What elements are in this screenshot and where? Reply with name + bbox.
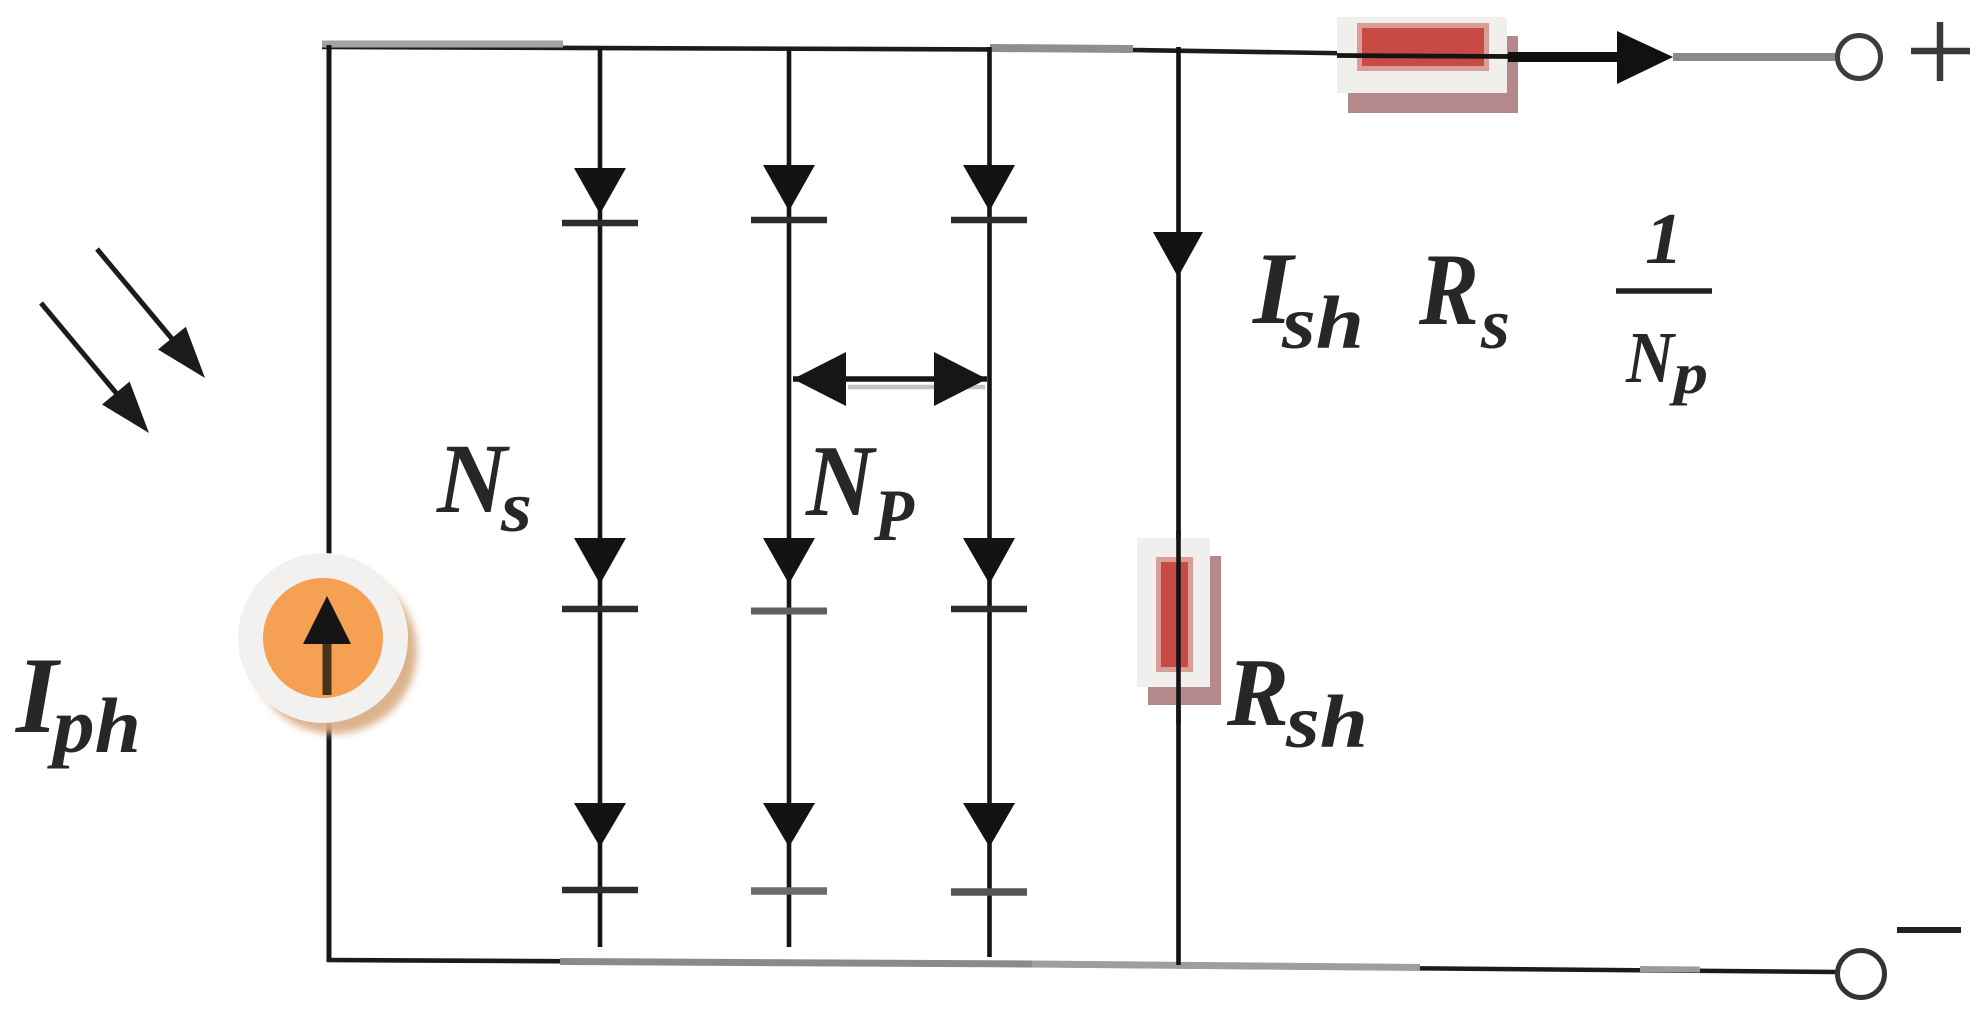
wire left branch bbox=[327, 45, 332, 962]
output current arrow bbox=[1337, 31, 1837, 84]
diode D5 string2 bbox=[751, 538, 827, 611]
label R_s bbox=[1418, 233, 1510, 364]
svg-text:N: N bbox=[805, 425, 877, 538]
svg-text:ph: ph bbox=[47, 682, 141, 769]
diode D2 string1 bbox=[562, 538, 638, 609]
diode D4 string2 bbox=[751, 165, 827, 220]
diode D3 string1 bbox=[562, 803, 638, 890]
diode D9 string3 bbox=[951, 803, 1027, 892]
label I_sh bbox=[1252, 232, 1364, 365]
svg-text:R: R bbox=[1418, 233, 1479, 347]
svg-text:sh: sh bbox=[1281, 282, 1364, 365]
diode string 1 wire bbox=[598, 47, 603, 947]
minus sign bbox=[1897, 927, 1961, 933]
wire bottom bus bbox=[327, 960, 1836, 972]
label N_s bbox=[436, 423, 532, 547]
wire shunt overlay through R_sh bbox=[1176, 530, 1181, 725]
diode D7 string3 bbox=[951, 165, 1027, 220]
sunlight arrow 2 bbox=[41, 303, 149, 433]
svg-text:1: 1 bbox=[1645, 198, 1683, 279]
diode D6 string2 bbox=[751, 803, 827, 891]
wire top bus bbox=[322, 44, 1520, 56]
svg-text:p: p bbox=[1668, 341, 1708, 406]
diode D8 string3 bbox=[951, 538, 1027, 609]
svg-text:s: s bbox=[1480, 284, 1510, 364]
current source I_ph (photocurrent source) bbox=[238, 553, 417, 734]
terminal negative bbox=[1838, 951, 1885, 998]
resistor R_sh bbox=[1137, 538, 1221, 705]
wire shunt branch bbox=[1176, 47, 1181, 965]
diode string 3 wire bbox=[987, 47, 992, 957]
diode string 2 wire bbox=[787, 47, 792, 947]
shunt current arrowhead bbox=[1153, 232, 1203, 277]
svg-text:s: s bbox=[500, 467, 532, 547]
svg-text:sh: sh bbox=[1285, 681, 1368, 764]
label N_P bbox=[805, 425, 915, 557]
dimension arrow N_P span bbox=[793, 352, 987, 406]
sunlight arrow 1 bbox=[97, 249, 205, 378]
svg-text:N: N bbox=[1625, 317, 1676, 398]
terminal positive bbox=[1838, 36, 1881, 79]
resistor R_s bbox=[1337, 17, 1518, 113]
label R_sh bbox=[1226, 639, 1368, 764]
svg-text:R: R bbox=[1226, 639, 1289, 747]
svg-text:P: P bbox=[873, 475, 915, 557]
svg-text:N: N bbox=[436, 423, 511, 534]
diode D1 string1 bbox=[562, 168, 638, 223]
label I_ph bbox=[14, 635, 141, 769]
fraction 1/N_p bbox=[1616, 198, 1712, 406]
plus sign bbox=[1911, 22, 1970, 81]
